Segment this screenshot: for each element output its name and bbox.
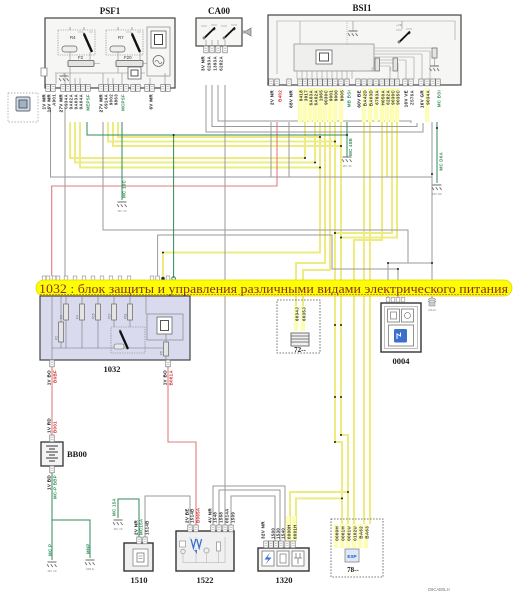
svg-text:0001H: 0001H: [293, 524, 298, 539]
wire red B402 BSI1 to 1032: [52, 122, 277, 276]
svg-text:1V BO: 1V BO: [163, 370, 168, 385]
component 1510: [124, 543, 153, 585]
BSI1 yellow label highlights: [298, 88, 429, 122]
svg-text:MB BSI: MB BSI: [347, 90, 352, 107]
svg-text:MC 15: MC 15: [114, 527, 123, 531]
svg-text:MC15A: MC15A: [139, 518, 144, 535]
1522 pin labels: [185, 507, 236, 523]
svg-text:F2: F2: [78, 55, 84, 60]
78 label highlights: [334, 524, 368, 548]
svg-text:ESP: ESP: [347, 554, 356, 559]
module 78 dashed ESP: [331, 519, 383, 577]
wire yellow PSF1 9002 to ESP: [108, 122, 342, 524]
1032 fuse F11: [124, 304, 133, 320]
wire yellow BSI1 BA42D to ESP: [363, 122, 365, 524]
svg-text:1548: 1548: [213, 512, 218, 523]
1032 top pin glyphs: [42, 276, 175, 281]
svg-text:32V NR: 32V NR: [261, 521, 266, 539]
component 1320: [258, 548, 309, 585]
wire green MCPSF to ground: [121, 122, 123, 200]
svg-text:MC 10: MC 10: [118, 209, 127, 213]
wire gray CA00 pin1 right: [206, 85, 423, 132]
PSF1 left edge pin: [41, 68, 47, 76]
1032 fuse F3: [60, 304, 69, 320]
svg-text:9034A: 9034A: [426, 90, 431, 105]
0004 top pins: [386, 298, 405, 303]
svg-text:6V MR: 6V MR: [149, 94, 154, 110]
wire yellow PSF1 9A04A: [80, 122, 320, 168]
svg-text:9000: 9000: [334, 90, 339, 101]
wire yellow BSI1 BA03D to ESP: [369, 122, 371, 524]
svg-text:MC-P BBP: MC-P BBP: [53, 475, 58, 499]
ground MCD6A: [432, 151, 444, 196]
svg-text:0000H: 0000H: [335, 526, 340, 541]
svg-text:MC D6: MC D6: [432, 192, 442, 196]
component 1032: [40, 296, 190, 374]
wire gray PSF1 6914A to 0004: [103, 122, 408, 263]
wire gray 1514B 1510 to 1522: [145, 496, 190, 538]
1510 pins: [137, 537, 147, 544]
wire gray 1548 1522 to 1320: [213, 486, 285, 541]
svg-text:0000H: 0000H: [287, 524, 292, 539]
splice icon below banner: [428, 298, 436, 312]
box PSF1: [45, 6, 175, 88]
svg-text:F11: F11: [124, 314, 128, 319]
svg-text:72--: 72--: [294, 346, 306, 354]
ground MNP: [85, 543, 95, 571]
svg-text:1032 : блок защиты и управлени: 1032 : блок защиты и управления различны…: [39, 282, 508, 296]
wire yellow BSI1 9001 to 72: [303, 122, 330, 308]
relay R4: [58, 27, 95, 55]
svg-text:B001: B001: [53, 421, 58, 433]
ground MC10C: [117, 179, 127, 213]
svg-text:60V BE: 60V BE: [357, 90, 362, 108]
svg-text:M110: M110: [428, 308, 436, 312]
1032 pin labels left: [47, 370, 58, 385]
module 72 stack symbol: [291, 333, 309, 354]
svg-text:1522: 1522: [197, 575, 214, 585]
1510 pin labels: [134, 518, 150, 535]
wire green MEPSF branch to 1032: [173, 135, 175, 278]
1522 pins: [188, 525, 233, 532]
1032 relay: [111, 327, 145, 353]
module 72 dashed: [277, 300, 320, 353]
svg-text:1V BD: 1V BD: [47, 475, 52, 490]
svg-text:1540: 1540: [281, 528, 286, 539]
svg-text:B402: B402: [278, 90, 283, 102]
svg-text:0014A: 0014A: [225, 508, 230, 523]
svg-text:PSF1: PSF1: [100, 6, 121, 16]
1320 label highlights: [286, 516, 296, 540]
svg-text:R4: R4: [70, 35, 76, 40]
BSI1 fuse F5: [371, 58, 380, 71]
box CA00: [196, 6, 242, 46]
svg-text:2V NR: 2V NR: [270, 90, 275, 105]
svg-text:BA42D: BA42D: [363, 90, 368, 106]
wire yellow PSF1 9A03A: [75, 122, 315, 163]
BB00 labels top: [47, 418, 58, 433]
svg-text:9863: 9863: [114, 94, 119, 105]
wire yellow BSI1 9005 stub: [340, 122, 342, 146]
wire gray BSI1 68V NR stub: [288, 122, 290, 177]
0004 icons: [388, 309, 414, 346]
wire yellow PSF1 9864 join: [118, 122, 320, 137]
svg-text:9035C: 9035C: [396, 90, 401, 105]
svg-text:1V RD: 1V RD: [47, 418, 52, 433]
wire gray 1568 1522 to 1320: [219, 490, 280, 541]
banner 1032 description: [36, 280, 512, 296]
svg-text:6763A: 6763A: [375, 90, 380, 105]
wire yellow BSI1 9030C to 72: [296, 122, 325, 308]
svg-text:6034J: 6034J: [295, 307, 300, 321]
wire gray CA00 pin2 right: [212, 85, 417, 127]
wire yellow BSI1 1065 to 1032: [163, 122, 320, 278]
wire gray A901 PSF1 long: [51, 108, 433, 177]
svg-text:16V GR: 16V GR: [420, 90, 425, 109]
1032 fuse F2: [55, 322, 64, 342]
svg-text:6293A: 6293A: [207, 56, 212, 71]
wire yellow 1320 0001H join: [296, 498, 342, 541]
PSF1 internal wires: [55, 52, 165, 84]
svg-text:0001H: 0001H: [341, 526, 346, 541]
BB00 labels bottom: [47, 475, 58, 499]
BSI1 internal wires: [297, 21, 437, 79]
svg-text:1V BO: 1V BO: [47, 370, 52, 385]
svg-text:F4: F4: [389, 67, 393, 71]
svg-text:6282A: 6282A: [219, 56, 224, 71]
PSF1 connector module right: [147, 27, 170, 76]
BSI1 inner frame: [277, 21, 455, 74]
svg-text:3V NR: 3V NR: [201, 56, 206, 71]
svg-text:MC BSI: MC BSI: [437, 90, 442, 107]
fuse F2: [68, 55, 94, 67]
svg-text:1393A: 1393A: [213, 56, 218, 71]
wire red 1032 to BB00: [51, 366, 53, 436]
svg-text:F5: F5: [371, 67, 375, 71]
svg-text:B0BF: B0BF: [53, 370, 58, 383]
ground MC P: [47, 544, 57, 573]
svg-text:6035J: 6035J: [302, 307, 307, 321]
box BSI1: [268, 3, 461, 85]
wire yellow PSF1 9863 to ESP: [113, 122, 348, 524]
svg-text:F5: F5: [160, 351, 164, 355]
component 1522: [176, 531, 234, 585]
svg-text:F20: F20: [124, 55, 132, 60]
1032 internal wires: [52, 296, 166, 360]
wire gray CA00 pin3 right: [218, 85, 411, 123]
ESP icon: [345, 549, 359, 574]
svg-text:R7: R7: [118, 35, 124, 40]
wire yellow BSI1 9030C2 join: [335, 122, 392, 233]
svg-text:A901: A901: [52, 94, 57, 106]
wire yellow BSI1 3917 stub: [304, 122, 306, 158]
1320 icons: [262, 551, 304, 566]
wire red B001A 1032 to 1522: [168, 366, 196, 526]
wire yellow BSI1 9035C join: [341, 122, 397, 238]
svg-text:1509: 1509: [231, 512, 236, 523]
svg-text:1032: 1032: [104, 364, 121, 374]
1032 fuse F15: [92, 304, 101, 320]
component 0004: [381, 303, 421, 366]
BSI1 inner module: [294, 44, 374, 71]
svg-text:9A04A: 9A04A: [79, 94, 84, 110]
svg-text:MC D6A: MC D6A: [439, 151, 444, 170]
svg-text:78--: 78--: [347, 566, 359, 574]
ground MC15A: [112, 498, 123, 531]
BB00 pins: [50, 435, 54, 473]
svg-text:1568: 1568: [219, 512, 224, 523]
1032 fuse F4: [76, 304, 85, 320]
svg-text:F17: F17: [108, 313, 112, 319]
svg-text:1320: 1320: [276, 575, 293, 585]
PSF1 bottom pin row: [46, 85, 170, 92]
svg-text:Z576A: Z576A: [410, 90, 415, 105]
svg-text:BSI1: BSI1: [352, 3, 372, 13]
wire gray 9034A BSI1 to splice: [431, 122, 433, 298]
PSF1 internal ground: [59, 73, 69, 81]
CA00 pin labels: [201, 56, 224, 71]
svg-text:MC 40: MC 40: [343, 164, 352, 168]
wire green MBBSI to ground: [346, 122, 348, 157]
wire gray 0004 bracket: [388, 263, 432, 297]
svg-text:68V NR: 68V NR: [289, 90, 294, 108]
wire gray 1509 1522 to 1320: [231, 496, 275, 541]
PSF1 pin labels: [42, 94, 154, 113]
wire green BB00 to grounds: [52, 472, 90, 560]
svg-text:0004: 0004: [393, 356, 411, 366]
svg-text:CA00: CA00: [208, 6, 230, 16]
CA00 connector icon: [242, 28, 251, 36]
svg-text:9005: 9005: [340, 90, 345, 101]
1522 internals: [180, 537, 226, 563]
1032 pin labels right: [163, 370, 174, 386]
svg-text:F15: F15: [92, 313, 96, 319]
wire yellow BSI1 H050A stub: [386, 122, 388, 177]
wire green MCBSI to ground: [436, 122, 438, 183]
svg-text:F2: F2: [55, 336, 59, 340]
wire yellow BSI1 6A62A stub: [314, 122, 316, 163]
wire yellow 72 stubs: [296, 296, 303, 308]
svg-text:BA63: BA63: [365, 526, 370, 539]
wire green 1510 to ground: [118, 499, 139, 538]
svg-text:MCPSF: MCPSF: [121, 94, 126, 111]
svg-text:BA03D: BA03D: [369, 90, 374, 106]
svg-text:MC P: MC P: [48, 544, 53, 556]
1032 fuse F5: [160, 342, 169, 356]
svg-text:D9CAB0LH: D9CAB0LH: [428, 587, 450, 592]
svg-text:0001U: 0001U: [347, 526, 352, 541]
BSI1 bottom pin row: [269, 79, 440, 86]
svg-text:MC 40B: MC 40B: [348, 138, 353, 156]
svg-text:MEPSF: MEPSF: [86, 94, 91, 111]
wire yellow BSI1 6763A to ESP: [354, 122, 382, 524]
PSF1 mid connector: [128, 67, 141, 79]
wire gray 1032 to 0004 pin2: [158, 235, 398, 297]
connector icon dashed box: [8, 93, 38, 122]
1320 pin labels: [261, 521, 298, 539]
relay R7: [106, 27, 143, 55]
1032 fuse F17: [108, 304, 117, 320]
svg-text:16V VE: 16V VE: [404, 90, 409, 107]
1320 pins: [264, 541, 295, 548]
wire gray CA00 long to 1522: [224, 85, 226, 526]
svg-text:BB00: BB00: [67, 449, 87, 459]
BSI1 pin labels: [270, 90, 442, 109]
svg-text:F4: F4: [76, 315, 80, 319]
svg-text:BA62: BA62: [359, 526, 364, 539]
BSI1 right fuse with ground: [430, 48, 440, 71]
svg-text:MC 15A: MC 15A: [112, 498, 117, 516]
1032 bottom pins: [50, 360, 170, 367]
BSI1 internal switch: [396, 21, 412, 43]
svg-text:MC 10: MC 10: [48, 569, 57, 573]
wire yellow BSI1 9000 stub: [334, 122, 336, 142]
fuse F20: [116, 55, 143, 67]
svg-text:0102U: 0102U: [353, 526, 358, 541]
switch CA00 right: [221, 25, 237, 39]
BSI1 internal ground: [348, 21, 358, 36]
wire gray PSF1 0934A to 1032: [64, 108, 66, 276]
wire gray BSI1 2V NR stub: [270, 122, 272, 177]
wire yellow 1320 0000H join: [290, 492, 348, 541]
svg-text:MNP: MNP: [86, 543, 91, 554]
component BB00 battery: [41, 442, 87, 466]
CA00 pin row: [204, 40, 227, 53]
svg-text:1514B: 1514B: [190, 508, 195, 523]
svg-text:MC 10C: MC 10C: [122, 179, 127, 197]
wire yellow PSF1 9A02A: [70, 122, 305, 158]
svg-text:F3: F3: [60, 315, 64, 319]
BSI1 fuse F4: [389, 58, 398, 71]
svg-text:B001A: B001A: [169, 370, 174, 386]
switch CA00 left: [201, 25, 217, 39]
ground MC40B: [342, 138, 353, 168]
1032 connector module: [147, 314, 183, 340]
78 wire labels: [335, 526, 370, 541]
svg-text:MM E: MM E: [86, 567, 94, 571]
svg-text:B065A: B065A: [196, 507, 201, 523]
wire green MEPSF to MC40B: [87, 122, 347, 135]
svg-text:1514B: 1514B: [145, 520, 150, 535]
svg-text:1510: 1510: [131, 575, 148, 585]
